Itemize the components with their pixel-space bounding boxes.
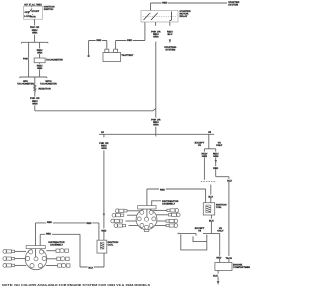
- svg-text:SYSTEM: SYSTEM: [228, 3, 238, 6]
- wire coil to distributor RED: [147, 187, 206, 205]
- wire w/o tachometer PNK: [23, 42, 29, 77]
- svg-text:COIL: COIL: [108, 244, 114, 247]
- starter motor relay label: [180, 10, 191, 18]
- wire relay output PNK OR RED/GRN: [151, 22, 161, 108]
- wire junction to connector 10: [151, 108, 161, 136]
- svg-text:GRN: GRN: [32, 31, 38, 34]
- svg-text:ASSEMBLY: ASSEMBLY: [162, 203, 175, 206]
- node HOT AT ALL TIMES: [24, 3, 42, 7]
- wire 6cyl primary RED BLK: [40, 232, 104, 269]
- svg-text:GRN: GRN: [37, 67, 43, 70]
- distributor V8 towers right: [153, 209, 180, 228]
- distributor V8 towers left: [111, 209, 140, 228]
- svg-text:SWITCH: SWITCH: [44, 8, 54, 11]
- svg-text:RELAY: RELAY: [180, 15, 188, 18]
- svg-text:GRN: GRN: [153, 36, 159, 39]
- wire coil feed BLK: [208, 185, 214, 203]
- svg-text:COMPARTMENT: COMPARTMENT: [233, 266, 250, 269]
- svg-text:ASSEMBLY: ASSEMBLY: [50, 244, 63, 247]
- svg-text:TACHOMETER: TACHOMETER: [40, 83, 57, 86]
- svg-text:RED: RED: [96, 39, 101, 42]
- svg-text:RED: RED: [127, 39, 132, 42]
- svg-text:GRN: GRN: [32, 102, 38, 105]
- wire ignition switch output: [30, 19, 40, 42]
- svg-text:BLK: BLK: [208, 196, 213, 199]
- ignition switch S1: [24, 6, 43, 19]
- connector C3 dashed: [201, 181, 216, 183]
- wire V8 only RED/GRN RED: [213, 149, 233, 263]
- wire engine feed PNK OR RED/GRN: [99, 134, 109, 240]
- svg-text:COIL: COIL: [216, 206, 222, 209]
- wire with tachometer RED/GRN upper: [37, 42, 43, 58]
- node V8 branch: [195, 131, 223, 149]
- label with tachometer: [40, 80, 57, 86]
- distributor 6cyl towers left: [3, 250, 26, 268]
- svg-text:BLK: BLK: [88, 266, 93, 269]
- svg-text:RED: RED: [162, 2, 167, 5]
- wire coil negative BLK: [208, 215, 214, 233]
- svg-text:RED: RED: [160, 188, 165, 191]
- svg-text:GRN: GRN: [101, 147, 107, 150]
- svg-text:TACHOMETER: TACHOMETER: [46, 58, 63, 61]
- svg-text:ONLY: ONLY: [217, 230, 224, 233]
- svg-text:TACH: TACH: [225, 257, 232, 260]
- wire battery positive RED to relay: [116, 22, 145, 49]
- ignition coil 6cyl: [97, 240, 118, 253]
- wire except V8 branch arrow: [177, 232, 196, 235]
- engine compartment junction box: [215, 263, 252, 271]
- battery B1: [103, 49, 134, 61]
- wire to ground BLK: [212, 270, 219, 284]
- ignition coil V8: [203, 203, 226, 215]
- distributor assembly V8 label: [152, 200, 179, 206]
- starter motor relay K1: [141, 11, 178, 23]
- label except V8 lower: [195, 227, 205, 233]
- wire PNK OR RED/GRN to junction: [30, 92, 156, 111]
- label V8 only lower: [217, 227, 224, 233]
- svg-text:RED: RED: [46, 233, 51, 236]
- svg-text:RED: RED: [101, 229, 106, 232]
- svg-text:GRN: GRN: [153, 124, 159, 127]
- tachometer: [34, 58, 63, 63]
- svg-text:RED: RED: [216, 257, 221, 260]
- svg-text:SYSTEM: SYSTEM: [165, 49, 175, 52]
- svg-text:RUN: RUN: [30, 16, 35, 19]
- connector bar C2: [20, 77, 47, 78]
- wire V8 only to harness: [203, 233, 222, 262]
- svg-text:RED: RED: [213, 167, 218, 170]
- distributor 6cyl: [25, 246, 47, 270]
- wire except V8 RED/GRN: [201, 149, 207, 180]
- svg-text:PNK: PNK: [23, 57, 28, 60]
- resistor wire: [34, 77, 51, 93]
- svg-text:BLK: BLK: [213, 275, 218, 278]
- svg-text:GRN: GRN: [37, 52, 43, 55]
- wire resistance loop: [181, 234, 208, 250]
- svg-text:TACHOMETER: TACHOMETER: [17, 83, 34, 86]
- svg-text:NOTE: NO COLORS AVAILABLE FOR: NOTE: NO COLORS AVAILABLE FOR ENGINE SYS…: [2, 283, 150, 287]
- svg-text:RED: RED: [47, 221, 52, 224]
- svg-text:GRN: GRN: [213, 155, 219, 158]
- connector 10 bar: [99, 131, 214, 134]
- distributor V8: [136, 206, 157, 232]
- wire tachometer output RED/GRN: [37, 63, 43, 77]
- distributor 6cyl towers right: [46, 249, 70, 268]
- svg-text:BLK: BLK: [227, 180, 232, 183]
- svg-text:BATTERY: BATTERY: [122, 54, 133, 57]
- svg-text:START: START: [31, 10, 39, 13]
- svg-text:ONLY: ONLY: [216, 144, 223, 147]
- distributor assembly 6cyl label: [48, 241, 65, 247]
- connector bar C1: [21, 42, 48, 43]
- svg-text:RESISTOR: RESISTOR: [39, 87, 51, 90]
- svg-text:BLU: BLU: [167, 33, 172, 36]
- wire relay to starting system RED/BLU: [164, 22, 176, 52]
- label w/o tachometer: [17, 80, 34, 86]
- ignition switch label: [44, 5, 55, 10]
- svg-text:BLK: BLK: [209, 220, 214, 223]
- wire relay to starter system RED: [151, 1, 240, 11]
- wire battery negative RED: [89, 38, 107, 55]
- wire 6cyl coil high tension RED: [36, 220, 99, 245]
- svg-text:RED: RED: [86, 222, 91, 225]
- svg-text:GRN: GRN: [202, 155, 208, 158]
- junction dot starter feed: [87, 55, 89, 57]
